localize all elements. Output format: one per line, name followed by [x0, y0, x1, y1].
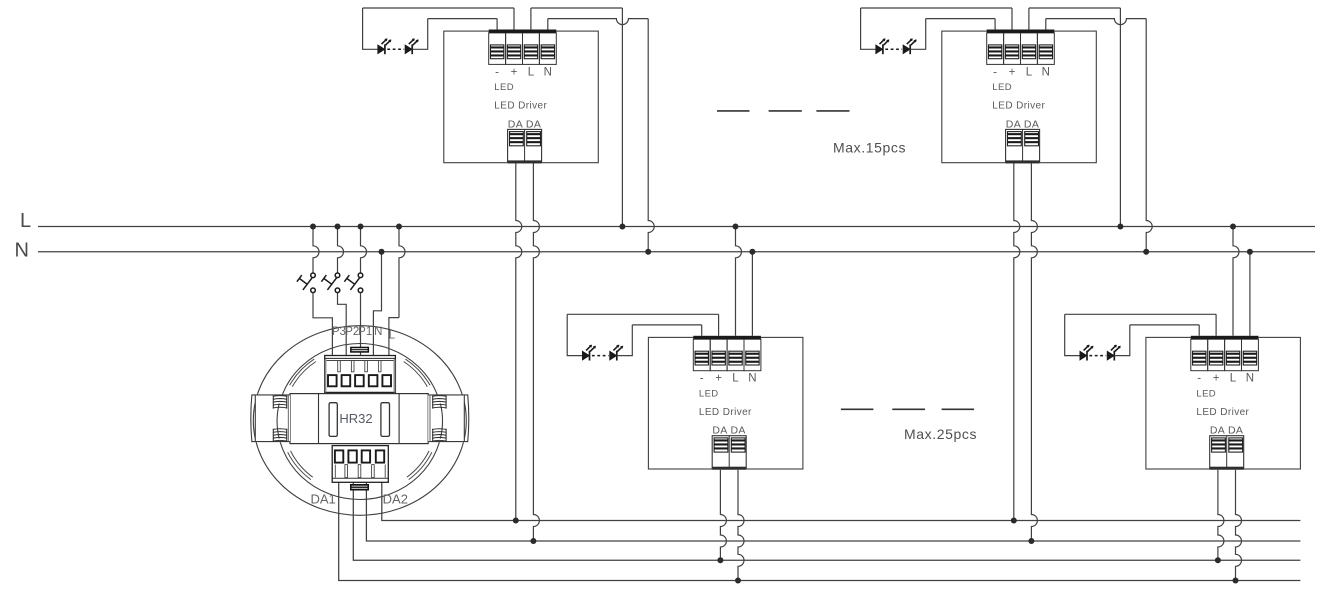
svg-text:+: +: [511, 66, 518, 78]
input terminal block of U4 (- + L N): [1191, 339, 1208, 371]
junction U4 DA on bus DA-D: [1233, 578, 1239, 584]
LED Driver U3 box: [942, 31, 1097, 163]
svg-text:DA DA: DA DA: [712, 425, 746, 437]
svg-text:P1: P1: [358, 326, 372, 338]
LED D1 of U1: [378, 38, 391, 54]
HR32 top terminal block (P3 P2 P1 N L): [325, 356, 396, 393]
wire U3 - return from LED chain cathode: [910, 19, 926, 50]
wire - terminal riser of U4: [1198, 325, 1200, 336]
wire dashed LED-string continuation of U1: [387, 48, 404, 50]
junction U1 L on L bus: [619, 224, 625, 230]
wire + terminal riser of U1: [513, 8, 515, 30]
DALI bus DA-C (from HR32 DA1 pin 2): [353, 482, 1300, 560]
wire DA2 drop of U1: [533, 163, 539, 541]
junction S3 on L bus: [358, 224, 364, 230]
svg-text:L: L: [1026, 66, 1033, 78]
HR32 mounting arc upper-left: [290, 359, 315, 385]
junction U1 N on N bus: [645, 249, 651, 255]
wire U1 + feed to LED chain anode: [363, 8, 378, 49]
wire S1 to HR32 pin P3: [313, 293, 332, 356]
svg-text:N: N: [544, 66, 552, 78]
DALI output terminal block of U2 (DA DA): [712, 436, 746, 468]
wire dashed LED-string continuation of U2: [592, 355, 609, 357]
LED D2 of U4: [1107, 345, 1120, 361]
wire L bus to HR32 pin L: [399, 227, 405, 318]
svg-text:DA DA: DA DA: [1210, 425, 1244, 437]
HR32 left inner ring segment: [277, 404, 279, 439]
wire dashed LED-string continuation of U4: [1089, 355, 1106, 357]
continuation dashes top row: [717, 110, 850, 112]
LED Driver U1 box: [444, 31, 599, 163]
wire + terminal riser of U3: [1011, 8, 1013, 30]
HR32 bottom block comb teeth: [335, 465, 385, 478]
svg-text:-: -: [993, 66, 997, 78]
control device HR32 inner ring: [277, 344, 442, 500]
LED D1 of U3: [876, 38, 889, 54]
wire N bus to HR32 pin N: [373, 252, 381, 356]
svg-text:LED: LED: [992, 82, 1012, 93]
wire dashed LED-string continuation of U3: [885, 48, 902, 50]
wire S3 to HR32 pin P1: [360, 293, 362, 356]
LED D2 of U2: [610, 345, 623, 361]
svg-text:DA1: DA1: [310, 492, 335, 507]
junction U3 N on N bus: [1143, 249, 1149, 255]
svg-text:LED: LED: [1196, 388, 1216, 399]
HR32 top connector: [350, 347, 369, 353]
wire U1 - return from LED chain cathode: [412, 19, 428, 50]
LED Driver U2 box: [648, 337, 803, 469]
junction U4 N on N bus: [1247, 249, 1253, 255]
HR32 top block side strips: [325, 359, 327, 392]
svg-text:-: -: [700, 373, 704, 385]
HR32 bottom terminal block (DA1 DA2): [332, 446, 388, 483]
svg-text:DA2: DA2: [383, 492, 408, 507]
wire DA1 drop of U3: [1014, 163, 1020, 520]
HR32 right inner ring segment: [440, 404, 442, 439]
wire - terminal riser of U1: [496, 19, 498, 30]
junction U2 DA on bus DA-C: [717, 557, 723, 563]
junction U2 DA on bus DA-D: [735, 578, 741, 584]
wire L bus to L terminal of U2: [736, 227, 742, 336]
wire N terminal of U1 to N bus: [547, 19, 549, 30]
wire L bus to L terminal of U4: [1233, 227, 1239, 336]
wire L terminal of U1 to L bus: [530, 8, 532, 30]
LED D1 of U2: [583, 345, 596, 361]
svg-text:DA DA: DA DA: [1006, 118, 1040, 130]
wire + terminal riser of U4: [1215, 314, 1217, 336]
wire L terminal of U3 to L bus: [1028, 8, 1030, 30]
svg-text:P3: P3: [332, 326, 346, 338]
junction U1 DA on bus DA-B: [530, 538, 536, 544]
wire S2 to HR32 pin P2: [338, 293, 347, 356]
svg-text:N: N: [15, 239, 29, 261]
HR32 mounting arc upper-right: [405, 359, 430, 385]
HR32 body slot left: [329, 403, 337, 437]
junction S2 on L bus: [335, 224, 341, 230]
LED D2 of U3: [903, 38, 916, 54]
HR32 right mounting bracket: [428, 394, 469, 442]
wire DA2 drop of U4: [1236, 470, 1242, 581]
HR32 body divider right: [398, 394, 400, 444]
input terminal block of U3 (- + L N): [987, 33, 1004, 65]
wire U2 + feed to LED chain anode: [567, 314, 582, 355]
svg-text:N: N: [1042, 66, 1050, 78]
HR32 left retention springs: [273, 396, 287, 442]
svg-text:L: L: [389, 329, 396, 341]
HR32 body divider left: [318, 394, 320, 444]
junction U3 DA on bus DA-A: [1011, 518, 1017, 524]
junction U2 L on L bus: [733, 224, 739, 230]
wire N terminal of U3 to N bus: [1045, 19, 1047, 30]
DALI output terminal block of U4 (DA DA): [1210, 436, 1244, 468]
input terminal block of U1 (- + L N): [489, 33, 506, 65]
HR32 left mounting bracket: [251, 394, 290, 442]
wire U2 - return from LED chain cathode: [617, 325, 633, 356]
junction U4 DA on bus DA-C: [1215, 557, 1221, 563]
DALI bus DA-B (from HR32 DA2 pin 3): [366, 482, 1300, 541]
HR32 top block comb teeth: [338, 361, 381, 372]
svg-text:+: +: [1009, 66, 1016, 78]
LED Driver U4 box: [1146, 337, 1301, 469]
HR32 central body: [290, 394, 428, 444]
svg-text:Max.15pcs: Max.15pcs: [833, 139, 906, 155]
wire N bus to N terminal of U2: [751, 252, 753, 336]
wire - terminal riser of U2: [701, 325, 703, 336]
push-button switch S3: [344, 273, 362, 293]
svg-text:Max.25pcs: Max.25pcs: [904, 426, 977, 442]
wire U3 + feed to LED chain anode: [861, 8, 876, 49]
svg-text:LED: LED: [494, 82, 514, 93]
junction U4 L on L bus: [1230, 224, 1236, 230]
wire L bus tap to S2: [338, 227, 344, 274]
svg-text:N: N: [1246, 373, 1254, 385]
svg-text:LED Driver: LED Driver: [494, 101, 547, 112]
svg-text:L: L: [732, 373, 739, 385]
svg-text:LED Driver: LED Driver: [699, 407, 752, 418]
HR32 bottom connector: [350, 484, 369, 491]
junction U3 L on L bus: [1117, 224, 1123, 230]
svg-text:-: -: [1197, 373, 1201, 385]
HR32 right retention springs: [432, 396, 446, 442]
HR32 bottom terminal holes pins DA1 DA1 DA2 DA2: [335, 450, 384, 462]
svg-text:LED Driver: LED Driver: [1196, 407, 1249, 418]
push-button switch S2: [321, 273, 339, 293]
junction HR32 N on N bus: [379, 249, 385, 255]
continuation dashes bottom row: [841, 408, 974, 410]
junction HR32 L on L bus: [396, 224, 402, 230]
HR32 band side edge lines: [287, 395, 289, 442]
svg-text:N: N: [748, 373, 756, 385]
svg-text:L: L: [20, 210, 31, 232]
DALI bus DA-D (from HR32 DA1 pin 1): [339, 482, 1301, 580]
wire DA2 drop of U3: [1031, 163, 1037, 541]
HR32 mounting arc lower-right: [409, 452, 432, 479]
svg-text:+: +: [1213, 373, 1220, 385]
svg-text:LED Driver: LED Driver: [992, 101, 1045, 112]
HR32 top terminal holes pins P3 P2 P1 N L: [328, 375, 391, 386]
wire L bus tap to S1: [313, 227, 319, 274]
HR32 right clip body: [428, 394, 464, 442]
input terminal block of U2 (- + L N): [693, 339, 710, 371]
svg-text:DA DA: DA DA: [508, 118, 542, 130]
junction U3 DA on bus DA-B: [1028, 538, 1034, 544]
DALI output terminal block of U3 (DA DA): [1006, 129, 1040, 161]
wire DA1 drop of U1: [516, 163, 522, 520]
svg-text:N: N: [374, 326, 382, 338]
svg-text:-: -: [495, 66, 499, 78]
wire L bus tap to S3: [361, 227, 367, 274]
wire + terminal riser of U2: [718, 314, 720, 336]
wire DA2 drop of U2: [738, 470, 744, 581]
svg-text:+: +: [715, 373, 722, 385]
svg-text:L: L: [528, 66, 535, 78]
wire - terminal riser of U3: [994, 19, 996, 30]
svg-text:LED: LED: [699, 388, 719, 399]
svg-text:L: L: [1230, 373, 1237, 385]
junction S1 on L bus: [310, 224, 316, 230]
svg-text:HR32: HR32: [339, 411, 372, 426]
wire DA1 drop of U2: [720, 470, 726, 561]
junction U2 N on N bus: [749, 249, 755, 255]
wire U4 - return from LED chain cathode: [1114, 325, 1130, 356]
DALI bus DA-A (from HR32 DA2 pin 4): [382, 482, 1301, 520]
N bus: [38, 251, 1315, 253]
wire N bus to N terminal of U4: [1249, 252, 1251, 336]
wire U4 + feed to LED chain anode: [1065, 314, 1080, 355]
HR32 body slot right: [381, 403, 390, 437]
junction U1 DA on bus DA-A: [513, 518, 519, 524]
HR32 left clip body: [255, 394, 290, 442]
wire DA1 drop of U4: [1218, 470, 1224, 561]
LED D1 of U4: [1080, 345, 1093, 361]
L bus: [38, 226, 1315, 228]
control device HR32 outer bezel ellipse: [253, 326, 466, 516]
HR32 mounting arc lower-left: [288, 452, 311, 479]
push-button switch S1: [297, 273, 315, 293]
DALI output terminal block of U1 (DA DA): [508, 129, 542, 161]
LED D2 of U1: [405, 38, 418, 54]
